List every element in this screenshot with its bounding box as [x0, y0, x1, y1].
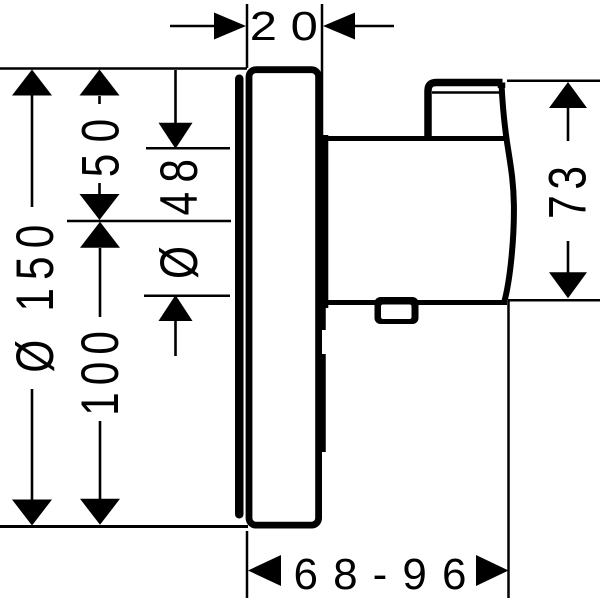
- escutcheon plate: [249, 70, 319, 525]
- wall flange band: [235, 75, 244, 519]
- stem line below body lower segment: [321, 354, 326, 452]
- dim line 20 right tail: [354, 25, 394, 28]
- extension line bottom (plate bottom, for 100 / D150): [0, 525, 248, 528]
- arrow 68-96 left: [248, 555, 281, 586]
- dim line 50 lower tail: [98, 183, 101, 194]
- arrow 100 top: [80, 222, 120, 248]
- arrow 50 top: [80, 70, 120, 96]
- svg-text:100: 100: [72, 331, 131, 416]
- spout tab inner: [381, 305, 412, 320]
- dim line D150 upper segment: [31, 95, 34, 207]
- arrow 50 bottom: [80, 194, 120, 220]
- dim line 100 upper segment: [99, 248, 102, 317]
- extension line 68-96 right: [507, 301, 510, 598]
- svg-text:2 0: 2 0: [250, 3, 318, 49]
- arrow 20 right: [323, 13, 355, 40]
- arrow D150 bottom: [12, 500, 52, 526]
- extension line 68-96 left: [246, 531, 249, 598]
- body top line: [321, 136, 505, 141]
- dim line 73 lower tail: [567, 241, 570, 273]
- extension line 20 left: [246, 4, 249, 68]
- dim line 20 left tail: [170, 25, 215, 28]
- arrow 20 left: [214, 13, 246, 40]
- extension line 73 bottom: [508, 299, 600, 302]
- extension line top (plate top, for 50 / D150): [0, 67, 247, 70]
- arrow D150 top: [12, 70, 52, 96]
- body bottom line: [321, 300, 507, 305]
- dim line 100 lower segment: [99, 421, 102, 500]
- center tick line: [67, 220, 231, 223]
- stem line below body upper segment: [321, 305, 326, 330]
- dim line D150 lower segment: [31, 389, 34, 500]
- dim line 73 upper tail: [567, 107, 570, 141]
- body left edge: [321, 135, 328, 308]
- arrow 68-96 right: [476, 555, 509, 586]
- arrow D48 bottom: [159, 295, 193, 321]
- body right curved edge: [502, 84, 514, 301]
- extension line 73 top: [507, 80, 600, 83]
- tick line D48 bottom: [144, 295, 230, 298]
- extension line 20 right: [321, 4, 324, 137]
- arrow 73 bottom: [549, 272, 587, 298]
- arrow 73 top: [549, 82, 587, 108]
- dim line 50 upper tail: [98, 96, 101, 104]
- svg-text:Ø 150: Ø 150: [6, 225, 65, 373]
- knob seam line: [432, 91, 502, 94]
- dim line D48 lower tail: [174, 321, 177, 356]
- knob right edge: [498, 83, 506, 89]
- spout tab outer: [375, 297, 419, 324]
- arrow 100 bottom: [80, 499, 120, 525]
- arrow D48 top: [159, 123, 193, 149]
- tick line D48 top: [146, 147, 230, 150]
- knob outline (left + top): [428, 83, 503, 139]
- dim line D48 upper tail: [174, 70, 177, 123]
